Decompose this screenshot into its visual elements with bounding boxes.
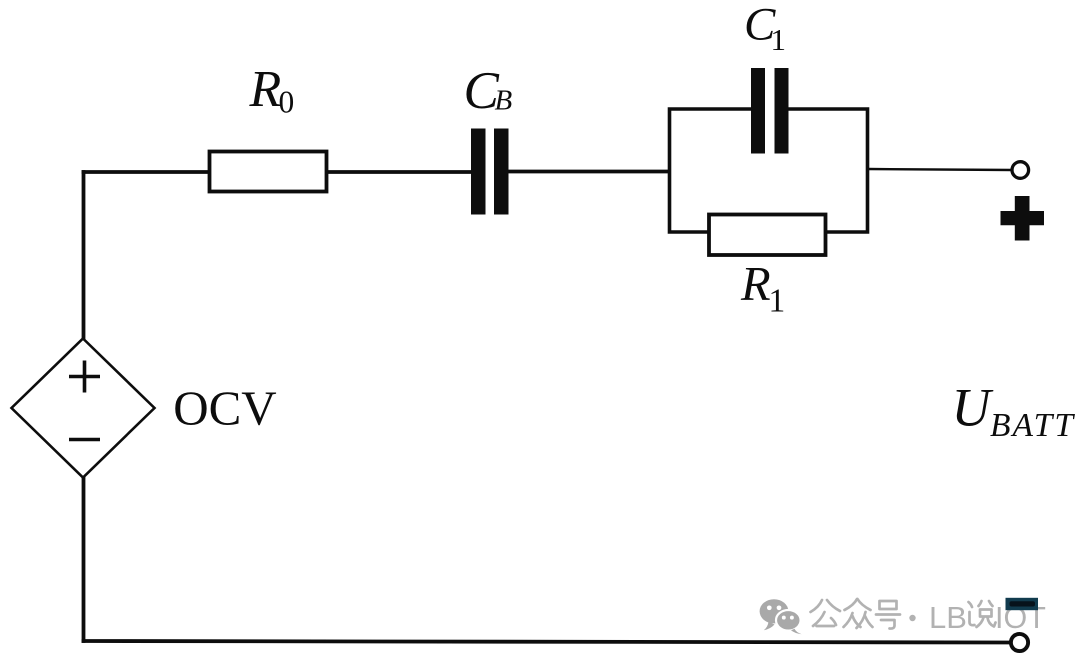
bold plus symbol (1001, 196, 1045, 241)
号 (880, 601, 897, 609)
plus sign inside source (69, 361, 100, 393)
bold minus symbol highlighted (1006, 598, 1039, 610)
svg-text:B: B (495, 85, 513, 117)
svg-text:OCV: OCV (173, 381, 276, 436)
watermark wechat icon (760, 599, 802, 634)
resistor R1 (709, 215, 826, 256)
svg-text:R: R (249, 61, 282, 118)
positive terminal node (1012, 162, 1029, 179)
watermark dot (909, 615, 915, 621)
svg-text:0: 0 (279, 85, 295, 120)
svg-text:BATT: BATT (990, 407, 1075, 444)
wire top-left horizontal (82, 170, 211, 174)
众 (845, 599, 858, 610)
svg-text:R: R (740, 258, 771, 311)
minus sign inside source (69, 438, 100, 442)
wire left vertical upper (82, 170, 86, 340)
svg-text:1: 1 (769, 283, 786, 320)
resistor R0 (210, 152, 327, 192)
公 (811, 600, 823, 612)
watermark 说 (969, 601, 996, 627)
watermark text 公众号 (811, 599, 901, 629)
svg-text:1: 1 (771, 22, 787, 57)
capacitor C1 (751, 68, 789, 154)
svg-text:LB: LB (929, 600, 967, 635)
wire left vertical lower (82, 476, 86, 643)
wire RC box to positive terminal (868, 169, 1013, 170)
negative terminal node (1011, 634, 1028, 651)
wire CB to RC box (507, 170, 671, 174)
svg-text:U: U (952, 378, 994, 438)
capacitor CB (471, 129, 509, 215)
dependent source OCV diamond (12, 339, 155, 478)
wire bottom horizontal (82, 641, 1012, 643)
wire R0 to CB (326, 170, 472, 174)
RC parallel box (670, 109, 868, 232)
